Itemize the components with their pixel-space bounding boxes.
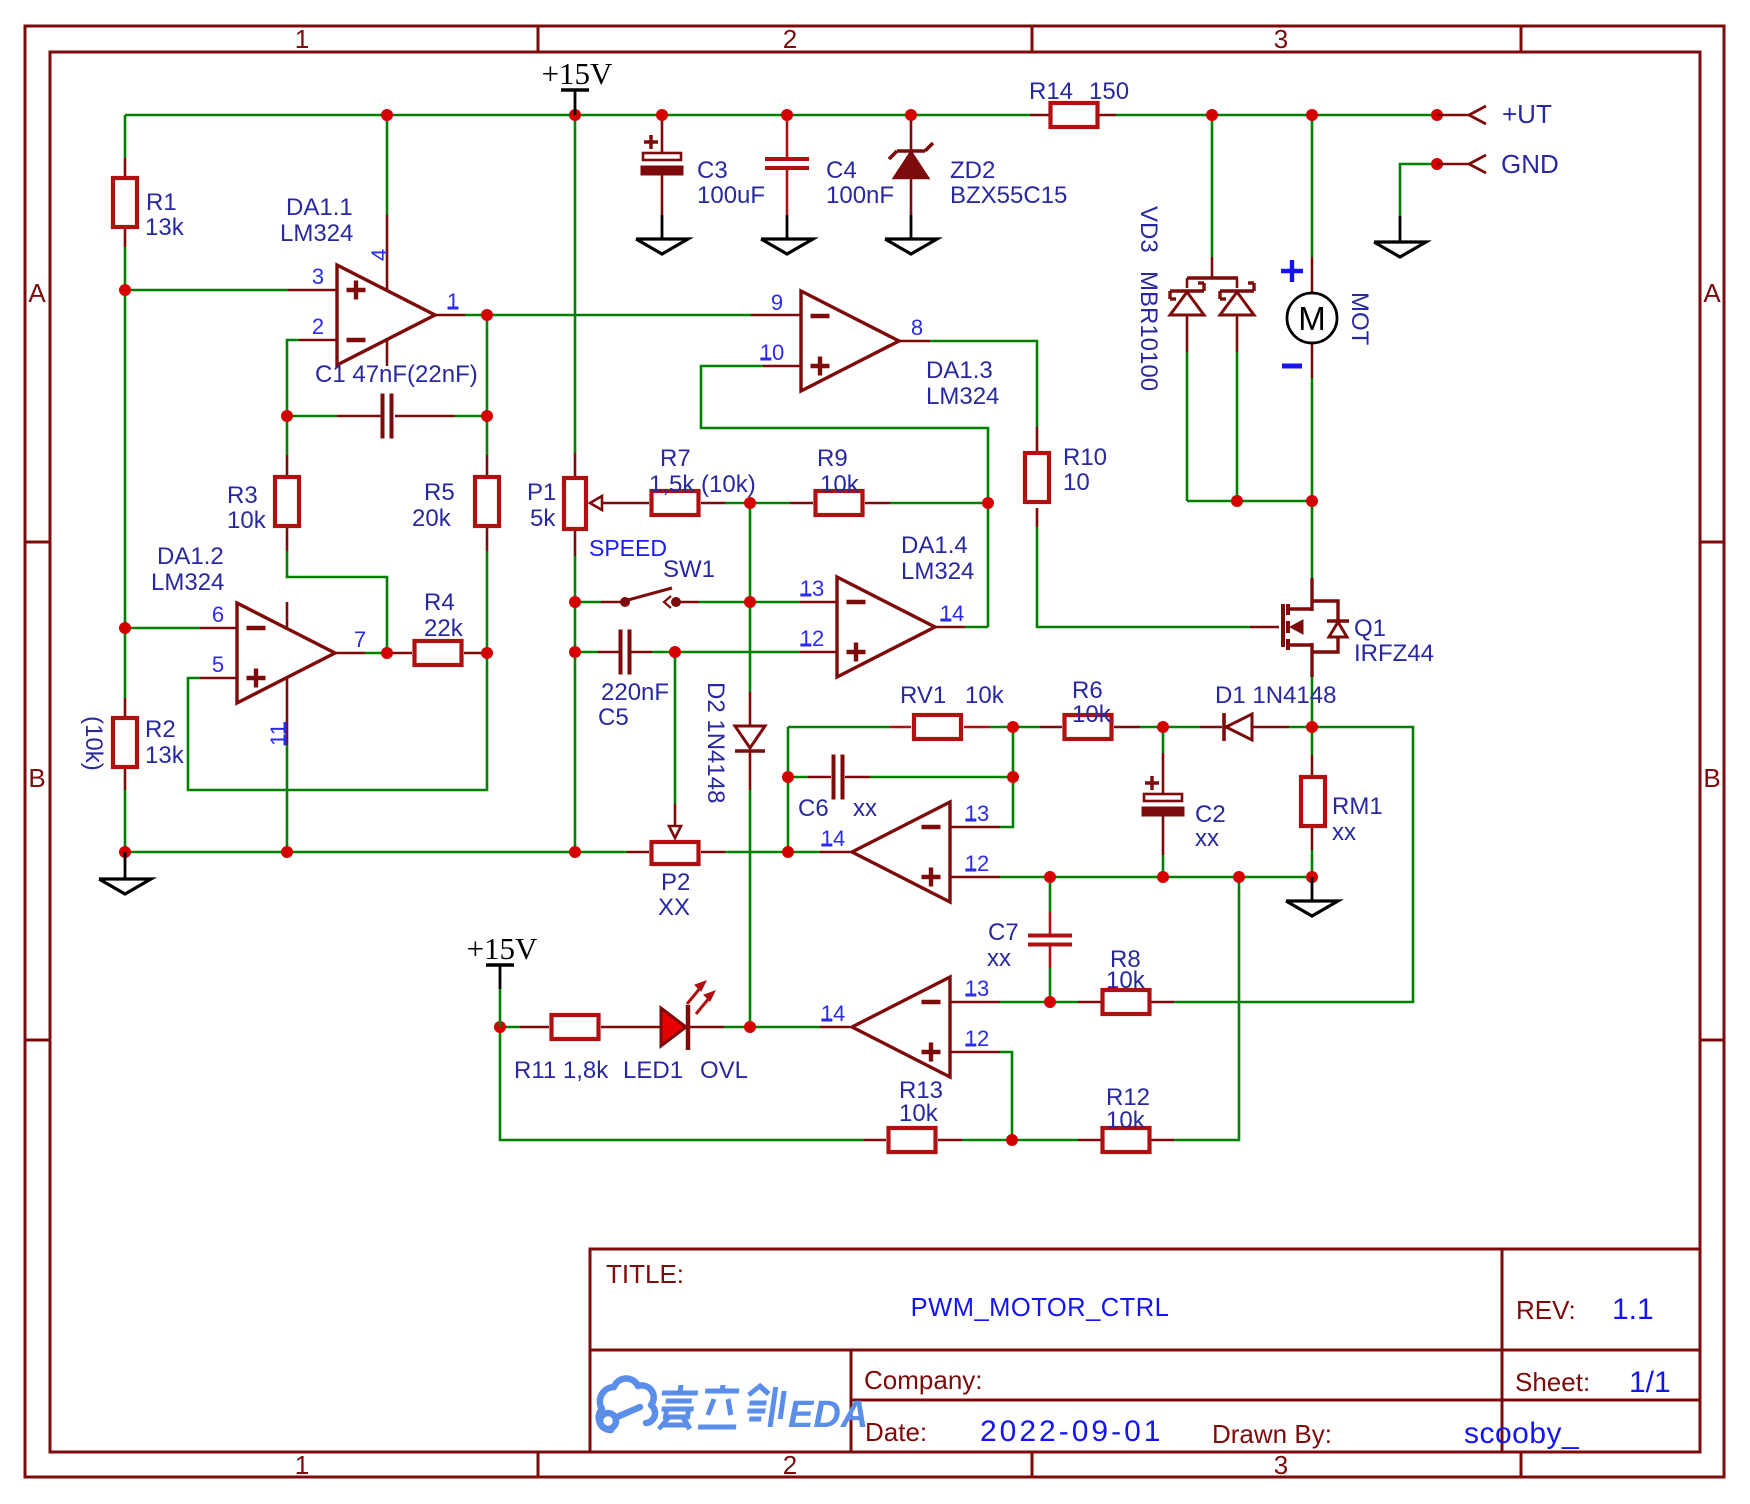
wire C2 bottom <box>1162 855 1165 877</box>
title block divider right cells <box>1501 1249 1504 1452</box>
svg-text:1: 1 <box>447 289 459 314</box>
svg-text:IRFZ44: IRFZ44 <box>1354 640 1434 667</box>
svg-text:C5: C5 <box>598 704 629 731</box>
lead DA1.3 pin8 <box>899 340 930 343</box>
svg-text:1/1: 1/1 <box>1629 1366 1671 1399</box>
junction source/D1 node <box>1306 721 1318 733</box>
svg-text:R2: R2 <box>145 716 176 743</box>
junction SW1 right node <box>744 596 756 608</box>
lead R3 <box>286 455 289 476</box>
svg-text:REV:: REV: <box>1516 1295 1576 1325</box>
wire ground rail left <box>125 851 627 854</box>
title block line title bottom <box>590 1349 1700 1352</box>
LED LED1 <box>661 1008 686 1046</box>
wire rail down +15V column to P1 <box>574 115 577 453</box>
junction C1 left <box>281 410 293 422</box>
svg-text:10k: 10k <box>1106 1107 1146 1134</box>
svg-text:10k: 10k <box>820 471 860 498</box>
wire C7 bottom <box>1049 968 1052 1002</box>
port +UT +UT <box>1437 114 1469 117</box>
resistor R13 <box>889 1128 936 1152</box>
svg-text:14: 14 <box>821 826 845 851</box>
wire SW1 left <box>575 601 601 604</box>
lead DA1.4 pin14 <box>935 626 965 629</box>
junction C7/R8 node <box>1044 996 1056 1008</box>
wire DA1.1 output to DA1.3 pin9 <box>465 314 751 317</box>
svg-text:LM324: LM324 <box>151 569 224 596</box>
svg-text:22k: 22k <box>424 615 464 642</box>
wire R4 right node down and to DA1.2 pin5 <box>188 653 487 790</box>
svg-text:SW1: SW1 <box>663 556 715 583</box>
wire R12 right up to ground rail <box>1174 877 1239 1140</box>
svg-text:10: 10 <box>1063 469 1090 496</box>
diode D1 <box>1226 714 1252 740</box>
wire P1 wiper to R7 <box>602 502 649 505</box>
svg-text:XX: XX <box>658 894 690 921</box>
wire RV1/R6 node down to pin13 elbow <box>1000 727 1013 827</box>
wire C5 left <box>575 651 598 654</box>
resistor R9 <box>816 491 863 515</box>
svg-text:3: 3 <box>1274 24 1288 54</box>
svg-text:12: 12 <box>965 851 989 876</box>
resistor R14 <box>1051 103 1098 127</box>
lead DA1.2 pin6 <box>200 627 237 630</box>
junction C1 right <box>481 410 493 422</box>
row tick left B|C <box>25 1039 50 1042</box>
wire comparator out to node <box>788 851 820 854</box>
potentiometer P2 <box>652 842 699 864</box>
svg-text:3: 3 <box>1274 1450 1288 1480</box>
wire DA1.1 output node down to C1 right / R5 <box>486 315 489 455</box>
svg-text:14: 14 <box>821 1001 845 1026</box>
junction C6 right node <box>1007 771 1019 783</box>
wire R7/R9 node down to SW node <box>749 503 752 602</box>
junction R9/DA1.4 node <box>982 497 994 509</box>
junction comparator out node <box>782 846 794 858</box>
lead R7 <box>701 502 725 505</box>
wire DA1.3 pin10 loop <box>701 366 988 503</box>
svg-text:C1 47nF(22nF): C1 47nF(22nF) <box>315 361 478 388</box>
wire D1 left node <box>1163 726 1200 729</box>
svg-text:2: 2 <box>783 24 797 54</box>
wire P1 bottom down SW C5 column <box>574 556 577 852</box>
svg-text:5: 5 <box>212 652 224 677</box>
resistor R1 <box>113 178 137 227</box>
wire LED node to comparator out <box>724 1026 820 1029</box>
wire C2 top <box>1162 727 1165 753</box>
wire DA1.4 pin13 <box>750 601 800 604</box>
wire D1 right <box>1289 726 1312 729</box>
lead R12 <box>1078 1139 1101 1142</box>
wire RV1 left long lead <box>788 726 890 729</box>
power flag +15V main <box>561 88 589 91</box>
wire R6 left <box>1013 726 1040 729</box>
motor M1 MOT <box>1287 293 1337 343</box>
capacitor C6 <box>832 755 836 800</box>
lead DA1.1 pin2 <box>299 339 337 342</box>
title block divider logo cell <box>850 1350 853 1452</box>
lead P2 <box>627 851 649 854</box>
svg-text:A: A <box>1703 278 1721 308</box>
svg-text:scooby_: scooby_ <box>1464 1417 1580 1450</box>
capacitor C2 (polarized) <box>1145 776 1159 790</box>
junction VD3/drain link <box>1231 495 1243 507</box>
wire VD3 right anode down <box>1236 352 1239 501</box>
junction R13/R12 node <box>1006 1134 1018 1146</box>
wire DA1.1 pin3 <box>125 289 288 292</box>
wire R6 right <box>1140 726 1163 729</box>
resistor R4 <box>415 641 462 665</box>
diode D2 <box>735 726 765 748</box>
lead DA1.2 pin11 <box>286 677 289 745</box>
svg-text:DA1.4: DA1.4 <box>901 532 968 559</box>
svg-text:M: M <box>1298 300 1326 337</box>
resistor R6 <box>1065 715 1112 739</box>
wire comparator pin12 to ground rail right <box>1000 876 1312 879</box>
port GND GND <box>1437 163 1469 166</box>
junction rail/motor <box>1306 109 1318 121</box>
lead P1 <box>574 453 577 476</box>
junction pin12/C7 node <box>1044 871 1056 883</box>
svg-text:DA1.1: DA1.1 <box>286 194 353 221</box>
switch SW1 <box>620 597 630 607</box>
svg-text:RM1: RM1 <box>1332 793 1383 820</box>
op-amp DA1.3 <box>801 291 899 391</box>
ground C3 <box>661 215 664 239</box>
op-amp op-amp U2B (comparator) <box>852 977 950 1077</box>
svg-text:EDA: EDA <box>788 1394 868 1436</box>
svg-text:RV1: RV1 <box>900 682 946 709</box>
wire DA1.4 pin12 to C5 right node <box>675 651 800 654</box>
lead D1 <box>1200 726 1222 729</box>
svg-text:P2: P2 <box>661 869 690 896</box>
wire GND port elbow <box>1400 164 1437 216</box>
svg-text:C3: C3 <box>697 157 728 184</box>
wire DA1.2 out to R4 <box>365 652 387 655</box>
svg-text:2: 2 <box>783 1450 797 1480</box>
lead R2 <box>124 698 127 717</box>
lead C3 <box>661 119 664 153</box>
power flag stem main <box>574 90 577 115</box>
svg-text:9: 9 <box>771 290 783 315</box>
wire SW1 right to pin13 node <box>699 601 750 604</box>
svg-text:R1: R1 <box>146 189 177 216</box>
svg-text:R3: R3 <box>227 482 258 509</box>
svg-text:R6: R6 <box>1072 677 1103 704</box>
wire C7 top <box>1049 877 1052 912</box>
lead R8 <box>1078 1001 1101 1004</box>
wire P2 right to out node <box>725 851 788 854</box>
lead DA1.2 pin7 <box>335 652 365 655</box>
logo JLCEDA cloud icon <box>599 1378 655 1430</box>
wire C1 left <box>287 415 337 418</box>
junction GND port <box>1431 158 1443 170</box>
svg-text:100nF: 100nF <box>826 182 894 209</box>
lead comparator U2A pins <box>951 826 1000 829</box>
wire VD3 bottom link to drain node <box>1187 500 1312 503</box>
svg-text:10k: 10k <box>1106 967 1146 994</box>
lead C1 <box>337 415 382 418</box>
wire R3 bottom elbow to DA1.2 output node <box>287 551 387 653</box>
svg-text:7: 7 <box>354 627 366 652</box>
svg-text:Company:: Company: <box>864 1365 983 1395</box>
lead D2 <box>749 692 752 726</box>
capacitor C1 <box>381 394 385 439</box>
wire RV1 right <box>990 726 1013 729</box>
lead DA1.4 pin13 <box>800 601 837 604</box>
LED1 arrows <box>687 987 701 1004</box>
lead ZD2 <box>910 119 913 151</box>
wire DA1.2 pin11 down to ground rail <box>286 745 289 852</box>
svg-text:4: 4 <box>367 249 392 261</box>
svg-text:LM324: LM324 <box>280 220 353 247</box>
wire rail to DA1.1 pin4 <box>386 115 389 215</box>
svg-text:12: 12 <box>965 1026 989 1051</box>
row tick right A|B <box>1700 541 1724 544</box>
svg-text:10k: 10k <box>227 507 267 534</box>
row tick right B|C <box>1700 1039 1724 1042</box>
VD3 common cathode bar <box>1187 276 1238 279</box>
wire node down to DA1.4 output <box>987 503 990 627</box>
wire R5 bottom to R4 right node <box>486 551 489 653</box>
svg-text:Sheet:: Sheet: <box>1515 1367 1590 1397</box>
op-amp DA1.2 <box>237 603 335 703</box>
capacitor C5 <box>619 630 623 675</box>
lead RV1 <box>890 726 911 729</box>
column tick bottom 3|4 <box>1520 1452 1523 1477</box>
junction rail/C4 <box>781 109 793 121</box>
ground RM1 <box>1311 877 1314 901</box>
svg-text:10: 10 <box>760 340 784 365</box>
svg-text:13k: 13k <box>145 742 185 769</box>
wire DA1.1 pin2 to C1 left and R3 <box>287 340 299 455</box>
svg-text:SPEED: SPEED <box>589 535 667 561</box>
svg-text:13: 13 <box>965 976 989 1001</box>
svg-text:20k: 20k <box>412 505 452 532</box>
svg-text:R4: R4 <box>424 589 455 616</box>
junction D2/LED node <box>744 1021 756 1033</box>
resistor R5 <box>475 477 499 526</box>
op-amp op-amp U2A (comparator) <box>852 802 950 902</box>
svg-text:12: 12 <box>800 626 824 651</box>
svg-text:C2: C2 <box>1195 801 1226 828</box>
column tick top 2|3 <box>1031 26 1034 52</box>
svg-text:B: B <box>28 763 45 793</box>
junction RV1/R6 node <box>1007 721 1019 733</box>
lead RM1 <box>1311 755 1314 776</box>
wire DA1.3 output to R10 <box>930 341 1037 427</box>
column tick bottom 2|3 <box>1031 1452 1034 1477</box>
svg-text:Date:: Date: <box>865 1417 927 1447</box>
svg-text:1,5k (10k): 1,5k (10k) <box>649 471 756 498</box>
junction R6/C2/D1 node <box>1157 721 1169 733</box>
junction C6 left node <box>782 771 794 783</box>
lead DA1.3 pin9 <box>751 314 801 317</box>
svg-text:1: 1 <box>295 1450 309 1480</box>
lead motor <box>1311 257 1314 293</box>
wire D2 bottom to LED node <box>749 790 752 1027</box>
MOSFET Q1 body diode <box>1327 619 1349 623</box>
svg-text:10k: 10k <box>965 682 1005 709</box>
resistor R3 <box>275 477 299 526</box>
lead R13 <box>864 1139 886 1142</box>
wire DA1.2 pin6 to left rail <box>125 627 200 630</box>
svg-text:LM324: LM324 <box>901 558 974 585</box>
svg-text:xx: xx <box>853 795 877 822</box>
wire +15V to R11 <box>500 1026 520 1029</box>
lead VD3 <box>1211 257 1214 278</box>
MOSFET Q1 IRFZ44 <box>1281 604 1285 647</box>
junction C5 right <box>669 646 681 658</box>
op-amp DA1.4 <box>837 577 935 677</box>
capacitor C7 <box>1028 934 1072 938</box>
svg-text:DA1.3: DA1.3 <box>926 357 993 384</box>
junction column/gnd rail <box>569 846 581 858</box>
svg-text:13: 13 <box>800 576 824 601</box>
svg-text:R14: R14 <box>1029 78 1073 105</box>
lead DA1.4 pin12 <box>800 651 837 654</box>
junction rail/+UT <box>1431 109 1443 121</box>
lead R6 <box>1040 726 1062 729</box>
wire D1 node to R8 right loop <box>1174 727 1413 1002</box>
wire C5 right node down to P2 wiper <box>674 652 677 804</box>
svg-text:C7: C7 <box>988 919 1019 946</box>
lead R5 <box>486 455 489 476</box>
column tick bottom 1|2 <box>537 1452 540 1477</box>
junction left rail/gnd <box>119 846 131 858</box>
wire +15V rail top left segment <box>125 114 1030 117</box>
lead DA1.2 pin5 <box>200 677 237 680</box>
svg-text:+15V: +15V <box>467 931 538 966</box>
lead Q1 gate <box>1250 626 1279 629</box>
resistor R7 <box>652 491 699 515</box>
row tick left A|B <box>25 541 50 544</box>
lead DA1.1 pin11 stub <box>386 340 389 366</box>
junction rail/C3 <box>656 109 668 121</box>
lead C2 <box>1162 753 1165 794</box>
wire C5 right <box>652 651 675 654</box>
junction RM1/gnd rail <box>1306 871 1318 883</box>
svg-text:+UT: +UT <box>1502 99 1552 129</box>
lead DA1.1 pin3 <box>288 289 337 292</box>
lead comparator U2B pins <box>950 1001 1000 1004</box>
lead C4 <box>786 119 789 159</box>
wire C6 left <box>788 776 808 779</box>
lead R10 <box>1036 427 1039 452</box>
junction DA1.1 out <box>481 309 493 321</box>
title block outline <box>590 1249 1700 1452</box>
motor - mark <box>1282 364 1302 369</box>
lead R4 <box>387 652 412 655</box>
svg-text:3: 3 <box>312 264 324 289</box>
wire R10 bottom to Q1 gate <box>1037 527 1250 627</box>
capacitor C4 <box>765 157 809 161</box>
zener diode ZD2 <box>894 152 928 178</box>
wire C6 right <box>870 776 1013 779</box>
schottky diode VD3 right <box>1220 292 1254 315</box>
svg-text:10k: 10k <box>899 1100 939 1127</box>
svg-text:P1: P1 <box>527 479 556 506</box>
junction R12 branch/gnd rail <box>1233 871 1245 883</box>
svg-text:PWM_MOTOR_CTRL: PWM_MOTOR_CTRL <box>911 1294 1170 1322</box>
column tick top 3|4 <box>1520 26 1523 52</box>
svg-text:10k: 10k <box>1072 701 1112 728</box>
lead C7 <box>1049 912 1052 935</box>
svg-text:B: B <box>1703 763 1720 793</box>
junction left rail/pin3 <box>119 284 131 296</box>
motor + mark <box>1281 269 1303 273</box>
svg-text:13k: 13k <box>145 214 185 241</box>
svg-text:100uF: 100uF <box>697 182 765 209</box>
svg-text:Q1: Q1 <box>1354 615 1386 642</box>
lead DA1.3 pin10 <box>763 365 801 368</box>
wire +15V stem to R11 node <box>499 989 502 1027</box>
svg-text:C4: C4 <box>826 157 857 184</box>
wire DA1.4 output <box>965 626 988 629</box>
svg-text:LED1: LED1 <box>623 1057 683 1084</box>
junction DA1.2 out/R4 <box>381 647 393 659</box>
wire Q1 source to D1 node <box>1311 677 1314 727</box>
wire R8 left to C7 node <box>1000 1001 1078 1004</box>
svg-text:8: 8 <box>911 315 923 340</box>
power flag +15V LED supply <box>486 963 514 966</box>
junction rail/pin4 <box>381 109 393 121</box>
schottky diode VD3 left <box>1170 292 1204 315</box>
junction SW1 left <box>569 596 581 608</box>
potentiometer P1 <box>564 478 586 529</box>
junction left rail/pin6 <box>119 622 131 634</box>
svg-text:R11 1,8k: R11 1,8k <box>514 1057 609 1084</box>
svg-text:R7: R7 <box>660 445 691 472</box>
lead DA1.2 pin4 stub <box>286 602 289 628</box>
svg-text:13: 13 <box>965 801 989 826</box>
svg-text:D1 1N4148: D1 1N4148 <box>1215 682 1336 709</box>
resistor R2 <box>113 718 137 767</box>
wire SW node down to D2 <box>749 602 752 692</box>
wire RM1 bottom <box>1311 850 1314 877</box>
svg-text:A: A <box>28 278 46 308</box>
resistor RM1 <box>1301 777 1325 826</box>
svg-text:14: 14 <box>940 601 964 626</box>
svg-text:xx: xx <box>1332 819 1356 846</box>
resistor R11 <box>552 1015 599 1039</box>
junction pin11/gnd rail <box>281 846 293 858</box>
svg-text:220nF: 220nF <box>601 679 669 706</box>
svg-text:xx: xx <box>987 945 1011 972</box>
lead R14 <box>1030 114 1049 117</box>
capacitor C3 (polarized) <box>644 135 658 149</box>
lead C5 <box>598 651 619 654</box>
lead R9 <box>790 502 813 505</box>
svg-text:R10: R10 <box>1063 444 1107 471</box>
wire rail to motor + <box>1311 115 1314 257</box>
resistor RV1 <box>914 715 961 739</box>
lead LED1 <box>626 1026 661 1029</box>
power flag stem LED supply <box>499 965 502 989</box>
wire +15V node down to R13 <box>500 1027 864 1140</box>
wire +15V rail top right segment <box>1116 114 1437 117</box>
svg-text:ZD2: ZD2 <box>950 157 995 184</box>
potentiometer P2 wiper arrow <box>669 826 681 838</box>
svg-text:+15V: +15V <box>542 56 613 91</box>
junction rail/+15V <box>569 109 581 121</box>
lead DA1.1 pin4 <box>386 215 389 290</box>
column tick top 1|2 <box>537 26 540 52</box>
svg-text:C6: C6 <box>798 795 829 822</box>
lead DA1.1 pin1 <box>435 314 465 317</box>
wire R13 right to R12 left node <box>962 1139 1078 1142</box>
svg-text:DA1.2: DA1.2 <box>157 543 224 570</box>
